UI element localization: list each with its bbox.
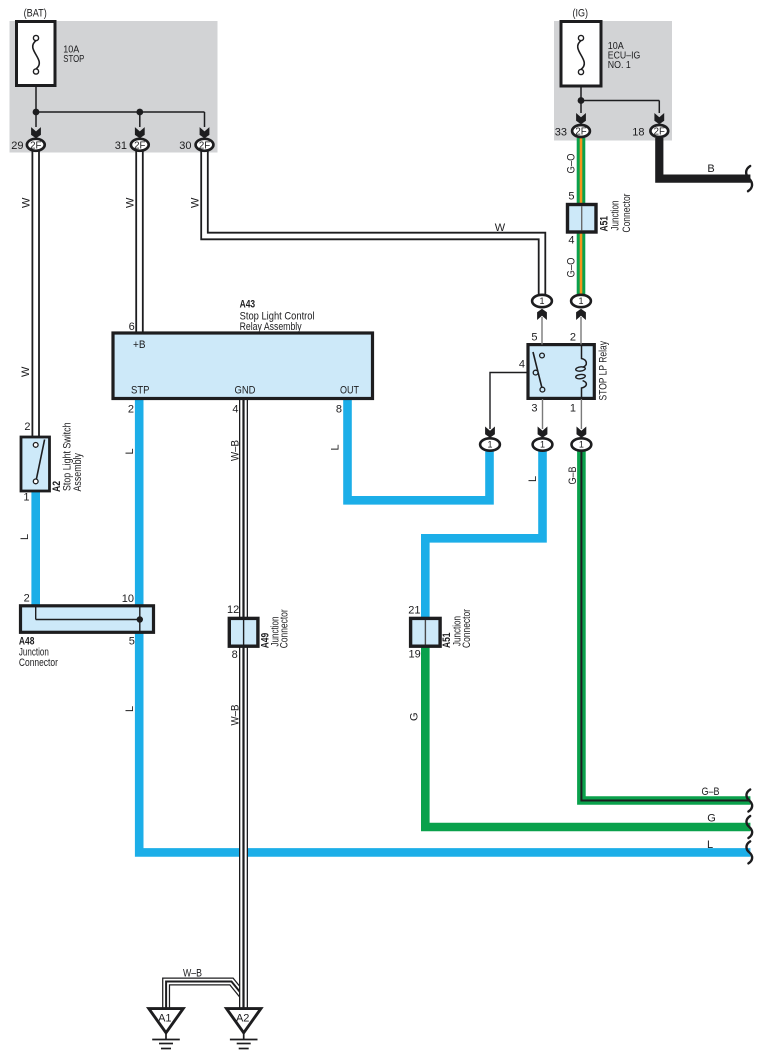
svg-text:5: 5 [531,332,537,344]
pin1 line to connector [580,399,582,429]
svg-text:G–O: G–O [566,153,578,173]
wire L from A2 pin1 to A48 pin2 [31,491,40,612]
svg-text:W–B: W–B [230,440,242,461]
connector 33 2F [572,125,590,137]
wire B from fuse 18 to right edge [659,138,750,179]
svg-text:1: 1 [540,440,545,450]
svg-text:Connector: Connector [461,609,473,648]
fuse ECU-IG NO.1 10A (IG) [561,22,601,87]
A43 Stop Light Control Relay Assembly box [113,333,373,399]
A48 Junction Connector [21,606,154,633]
svg-text:1: 1 [23,492,29,504]
pin5 line to connector [541,317,543,345]
svg-text:4: 4 [232,404,238,416]
wire L bottom horizontal (STP long run) [139,398,750,852]
svg-text:2F: 2F [199,141,210,152]
svg-text:G–O: G–O [566,257,578,277]
STOP LP Relay box [528,345,594,399]
svg-text:1: 1 [487,440,492,450]
wire W-B branch to ground A1 [166,982,243,1009]
A49 Junction Connector [229,618,258,646]
svg-text:2: 2 [24,593,30,605]
svg-text:5: 5 [568,191,574,203]
curl end of wire L [746,841,752,863]
svg-text:2F: 2F [30,141,41,152]
junction dot [136,109,143,116]
svg-text:2F: 2F [654,127,665,138]
wire G-O from fuse 33 to inline connector [577,138,586,294]
svg-text:33: 33 [555,127,567,139]
connector 31 2F [131,139,149,151]
svg-text:6: 6 [129,321,135,333]
wire L from A43 OUT to relay pin4 connector [348,398,490,500]
arrow into 30 [200,127,210,138]
arrow into 18 [654,113,664,124]
svg-text:Relay Assembly: Relay Assembly [240,321,302,333]
curl end of wire G [746,816,752,838]
arrow into 31 [135,127,145,138]
svg-text:W: W [125,197,137,208]
ground A1 [149,1009,183,1033]
svg-text:W: W [21,197,33,208]
connector 29 2F [27,139,45,151]
svg-text:L: L [707,839,713,851]
curl end of wire B [746,166,752,191]
arrow up into connector below pin5 circle [537,309,547,320]
svg-text:30: 30 [179,140,191,152]
inline connector 1 (relay pin1 to G-B) [572,438,592,450]
svg-text:A2: A2 [236,1013,249,1025]
A2 Stop Light Switch Assembly [21,437,50,491]
svg-text:1: 1 [570,403,576,415]
svg-text:8: 8 [336,404,342,416]
svg-text:W: W [495,222,506,234]
junction dot [33,109,40,116]
junction dot A48 [137,616,143,622]
svg-text:Connector: Connector [19,657,58,669]
wire W from 29/2F to A2 pin2 [32,151,40,437]
svg-text:(BAT): (BAT) [24,8,47,20]
svg-text:GND: GND [235,385,256,397]
svg-text:G–B: G–B [567,467,579,485]
pin4 line to connector [490,373,528,430]
inline connector 1 (OUT to relay pin4) [480,438,500,450]
svg-text:L: L [19,534,31,540]
svg-text:+B: +B [133,339,146,351]
arrow into 29 [31,127,41,138]
svg-text:G: G [409,712,421,721]
svg-text:18: 18 [632,127,644,139]
wire bus from fuse IG [580,86,582,113]
svg-text:STP: STP [131,385,150,397]
svg-text:Connector: Connector [621,193,633,232]
pin2 line to connector [580,317,582,345]
ground A2 [227,1009,261,1033]
svg-text:2: 2 [128,404,134,416]
svg-text:G: G [707,813,716,825]
svg-text:12: 12 [227,604,239,616]
svg-text:31: 31 [115,140,127,152]
connector 30 2F [196,139,214,151]
svg-text:1: 1 [579,440,584,450]
svg-text:A43: A43 [240,298,256,310]
svg-text:A1: A1 [158,1013,171,1025]
gray block left (battery feed area) [10,21,218,153]
svg-text:4: 4 [568,235,574,247]
wire bus from fuse BAT [35,86,37,128]
svg-text:8: 8 [232,649,238,661]
svg-text:Assembly: Assembly [72,452,84,491]
svg-text:L: L [124,448,136,454]
wire L from relay pin3 to A51 pin21 [425,452,542,621]
svg-text:STOP LP Relay: STOP LP Relay [598,341,610,401]
svg-text:L: L [330,444,342,450]
svg-text:OUT: OUT [340,385,359,397]
wire G-B from relay pin1 to right edge [581,452,750,801]
svg-text:W–B: W–B [230,705,242,726]
relay switch blade [533,352,542,389]
wire W from 30/2F to relay pin5 connector [205,151,543,295]
wire G from A51 pin19 to right edge [425,644,750,827]
svg-text:19: 19 [409,649,421,661]
svg-text:2: 2 [24,421,30,433]
svg-text:L: L [124,706,136,712]
svg-text:10: 10 [122,593,134,605]
inline connector 1 (relay pin3 to L) [533,438,553,450]
inline connector 1 (G-O to relay pin2) [571,295,591,307]
arrow down into connector above pin4 circle [485,427,495,438]
connector 18 2F [650,125,668,137]
svg-text:(IG): (IG) [573,8,589,20]
svg-text:Connector: Connector [279,609,291,648]
arrow down into connector above pin3 circle [538,427,548,438]
arrow down into connector above pin1 circle [577,427,587,438]
fuse STOP 10A (BAT) [17,22,56,86]
svg-text:W: W [190,197,202,208]
inline connector 1 (W to relay pin5) [532,295,552,307]
svg-text:1: 1 [539,296,544,306]
svg-text:L: L [527,476,539,482]
arrow up into connector below pin2 circle [576,309,586,320]
svg-text:G–B: G–B [702,786,720,798]
svg-text:3: 3 [531,403,537,415]
svg-text:21: 21 [408,605,420,617]
svg-text:NO. 1: NO. 1 [608,60,631,71]
curl end of wire G-B [746,790,752,812]
junction dot [578,97,585,104]
svg-text:W–B: W–B [183,968,202,980]
svg-text:Junction: Junction [610,200,622,230]
svg-text:2: 2 [570,332,576,344]
svg-text:2F: 2F [134,141,145,152]
A51 Junction Connector (lower) [411,618,441,646]
wire W from 31/2F to A43 pin6 [135,151,143,333]
gray block right (ignition feed area) [554,21,672,141]
svg-text:W: W [20,366,32,377]
A51 Junction Connector (upper) [568,205,597,233]
svg-text:2F: 2F [575,127,586,138]
svg-text:4: 4 [519,359,525,371]
svg-text:29: 29 [11,140,23,152]
arrow into 33 [576,113,586,124]
svg-text:B: B [707,163,714,175]
relay coil [582,346,587,367]
svg-text:STOP: STOP [63,54,84,65]
pin3 line to connector [542,399,544,429]
svg-text:1: 1 [578,296,583,306]
svg-text:5: 5 [129,636,135,648]
wire W-B from A43 GND to ground A2 [239,398,248,1009]
